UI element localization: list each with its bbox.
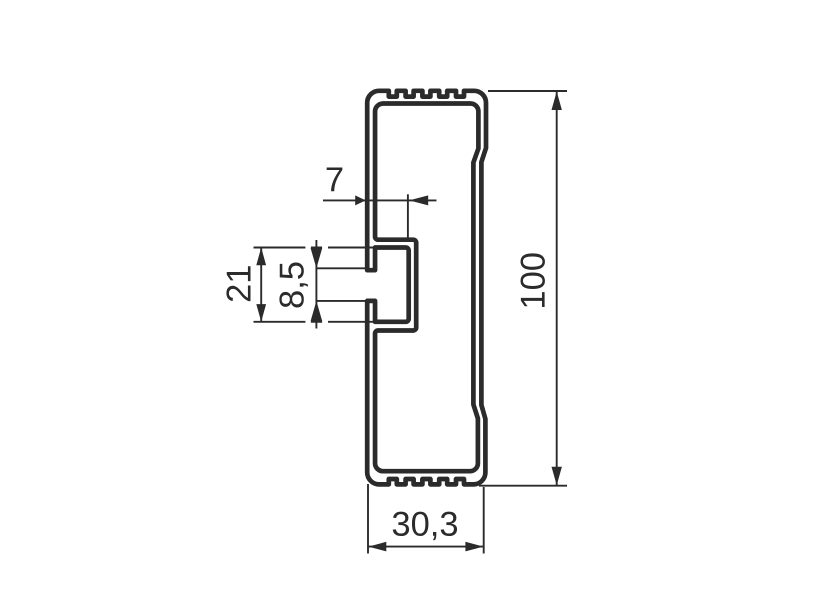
arrowhead 100 down	[552, 467, 562, 486]
extension line 30,3 left	[367, 484, 369, 554]
arrowhead 21 up	[256, 248, 266, 266]
profile inner cavity contour with slot channel bump	[375, 104, 478, 472]
arrowhead 7 left	[355, 195, 365, 205]
arrowhead 8,5 down	[311, 248, 323, 268]
arrowhead 30,3 right	[465, 542, 483, 552]
label 100 (rotated)	[521, 253, 545, 307]
arrowhead 100 up	[552, 92, 562, 111]
label 8,5 (rotated)	[279, 262, 308, 307]
extension line 100 bottom	[479, 485, 567, 487]
leader line 8,5	[315, 240, 317, 329]
profile outer contour: serrated top and bottom faces, stepped right wall, left wall with slot opening and T-slot pocket	[367, 91, 486, 485]
extension line 21 bottom	[254, 321, 377, 323]
label 21 (rotated)	[226, 266, 250, 301]
extension line 100 top	[488, 90, 567, 92]
dimension line 7 (slot depth)	[323, 199, 437, 201]
arrowhead 7 right	[409, 195, 428, 205]
arrowhead 21 down	[256, 304, 266, 322]
label 7	[327, 167, 343, 191]
extension line 8,5 bottom (slot opening bottom lip)	[316, 300, 366, 302]
extension line 30,3 right	[483, 487, 485, 554]
extension line 8,5 top (slot opening top lip)	[316, 267, 366, 269]
white halos where the 8,5 arrows cross the 21 extension lines	[305, 246, 328, 324]
arrowhead 30,3 left	[368, 542, 386, 552]
dimension line 100 (profile height)	[556, 91, 558, 486]
label 30,3	[393, 512, 457, 540]
extension line for 7 at pocket inner face	[407, 194, 409, 240]
dimension line 21 (pocket height)	[260, 248, 262, 322]
dimension line 30,3 (profile width)	[368, 546, 484, 548]
extension line 21 top	[254, 247, 377, 249]
arrowhead 8,5 up	[311, 301, 323, 321]
